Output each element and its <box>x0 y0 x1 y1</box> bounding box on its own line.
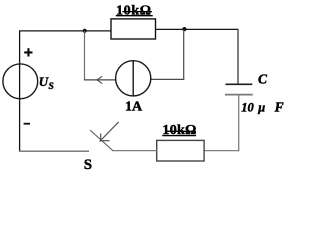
node dot 2 <box>182 27 186 31</box>
wire: left vertical (US branch) <box>19 31 21 151</box>
resistor R1 box (top) <box>111 19 156 39</box>
label + <box>24 48 32 56</box>
voltage source US circle <box>3 64 38 99</box>
wire: vertical up to node 2 <box>183 29 185 80</box>
wire: vertical below node 1 <box>84 31 86 80</box>
switch arrow barb horizontal <box>100 140 110 142</box>
switch actuation arrow shaft <box>100 122 119 142</box>
wire: horizontal from current source (right) <box>151 78 185 80</box>
wire: capacitor lower vertical <box>238 95 240 151</box>
label 10kΩ (bottom) with strike and underline <box>162 123 196 138</box>
wire: right vertical down to capacitor <box>237 29 239 84</box>
wire: top horizontal left segment <box>19 30 112 32</box>
svg-text:10: 10 <box>241 101 254 115</box>
arrow on current source wire <box>97 76 102 83</box>
node dot 1 <box>83 29 87 33</box>
capacitor C bottom plate <box>225 94 253 96</box>
current source U1 circle with diameter line <box>116 61 151 96</box>
switch S arm <box>90 130 113 151</box>
svg-text:S: S <box>84 157 92 173</box>
wire: top horizontal right segment <box>155 28 238 30</box>
svg-text:F: F <box>274 100 284 115</box>
resistor R2 box (bottom) <box>157 140 204 161</box>
svg-text:C: C <box>258 72 268 87</box>
label 10uF <box>241 100 283 115</box>
wire: bottom middle horizontal (switch to R2) <box>113 150 158 152</box>
svg-text:US: US <box>39 74 54 92</box>
wire: bottom left horizontal <box>19 150 89 152</box>
label - <box>24 123 30 125</box>
capacitor C top plate <box>226 83 253 85</box>
wire: bottom right horizontal <box>204 150 240 152</box>
wire: horizontal into current source (left) <box>84 79 116 81</box>
label 10kΩ (top) with strike and underline <box>116 3 153 18</box>
switch arrow barb vertical <box>100 133 102 141</box>
svg-text:μ: μ <box>257 101 265 115</box>
svg-text:1A: 1A <box>125 100 143 115</box>
